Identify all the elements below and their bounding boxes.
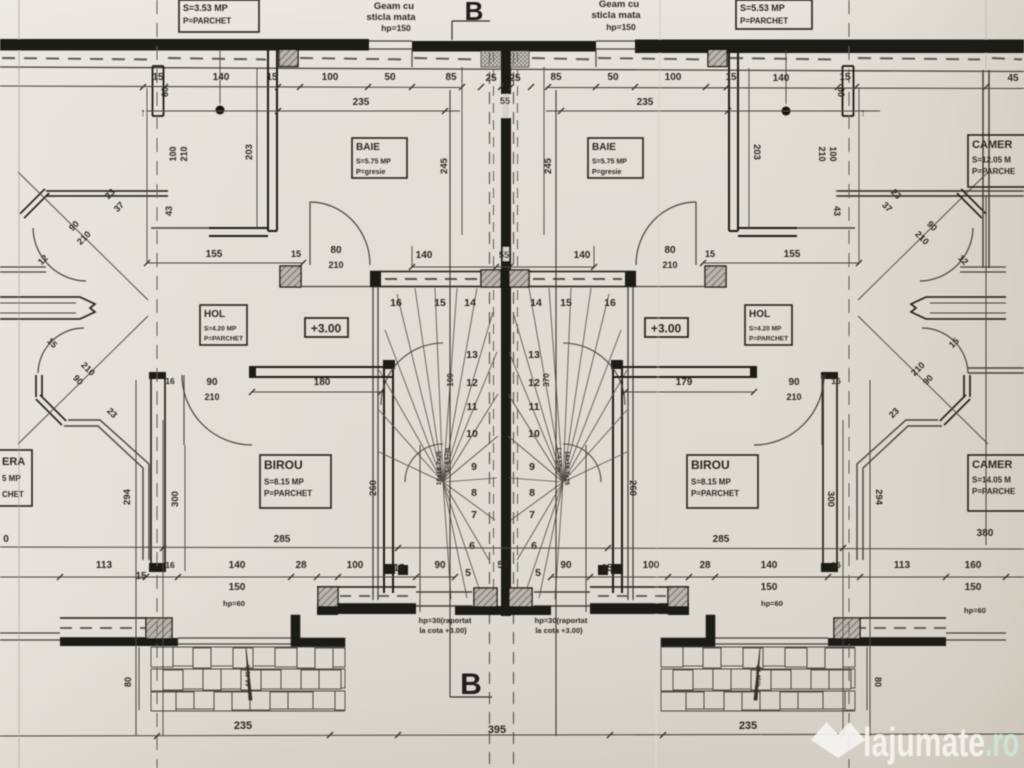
- svg-text:25: 25: [485, 73, 497, 84]
- svg-text:294: 294: [122, 488, 133, 505]
- svg-text:235: 235: [739, 720, 757, 732]
- svg-text:S=14.05 M: S=14.05 M: [972, 476, 1011, 485]
- svg-text:16: 16: [604, 297, 616, 309]
- svg-text:210: 210: [662, 260, 677, 270]
- svg-text:sticla mata: sticla mata: [366, 12, 416, 23]
- BIROU top wall: [322, 376, 394, 378]
- L-step wall: [291, 615, 345, 647]
- BAIE door arc: [310, 202, 370, 265]
- camera bottom top wall right: [968, 367, 1024, 369]
- bay diagonal walls lower: [36, 399, 62, 425]
- svg-text:8: 8: [529, 487, 535, 499]
- svg-text:13: 13: [466, 349, 478, 361]
- hol top edge line to door: [301, 286, 370, 288]
- svg-text:16x18.7x25: 16x18.7x25: [436, 450, 443, 485]
- svg-text:113: 113: [894, 560, 911, 571]
- svg-text:203: 203: [751, 144, 762, 160]
- svg-text:B: B: [460, 668, 482, 701]
- svg-text:180: 180: [314, 377, 331, 388]
- svg-text:10: 10: [528, 428, 540, 440]
- B section top bracket: [452, 20, 490, 22]
- svg-text:15: 15: [560, 297, 572, 309]
- bay diagonal walls upper: [20, 189, 45, 214]
- svg-text:55: 55: [497, 560, 509, 571]
- svg-text:285: 285: [274, 534, 291, 545]
- svg-text:245: 245: [543, 157, 554, 174]
- paper seam center: [656, 0, 660, 768]
- terrace steps brick pattern: [151, 646, 345, 648]
- svg-text:43: 43: [832, 206, 842, 216]
- window dashes: [2, 58, 148, 60]
- svg-text:140: 140: [761, 560, 778, 571]
- svg-text:12: 12: [466, 377, 478, 389]
- dim line y263 (155 row): [147, 262, 303, 264]
- svg-text:100: 100: [665, 72, 682, 83]
- svg-text:395: 395: [488, 724, 506, 736]
- svg-text:100: 100: [446, 373, 455, 387]
- svg-text:140: 140: [229, 560, 246, 571]
- svg-text:P=PARCHET: P=PARCHET: [740, 17, 788, 26]
- CAMERA right bottom box: [968, 455, 1024, 511]
- svg-text:5: 5: [535, 567, 541, 579]
- verticals mid (lot lines): [135, 380, 137, 736]
- watermark logo chevron diamond: [811, 719, 1019, 765]
- BIROU door leaf right: [821, 375, 823, 445]
- svg-text:P=PARCHET: P=PARCHET: [204, 336, 243, 343]
- central party wall: [501, 42, 511, 94]
- svg-text:15: 15: [601, 563, 613, 574]
- svg-text:.ro: .ro: [985, 719, 1019, 765]
- svg-text:Geam cu: Geam cu: [374, 1, 414, 12]
- svg-text:60: 60: [160, 87, 170, 97]
- svg-text:235: 235: [353, 97, 370, 108]
- svg-text:S=4.20 MP: S=4.20 MP: [749, 326, 782, 333]
- svg-text:210: 210: [179, 146, 189, 161]
- BIROU door arc: [182, 375, 252, 445]
- svg-text:BAIE: BAIE: [356, 142, 380, 153]
- svg-text:6: 6: [469, 540, 475, 552]
- svg-text:sticla mata: sticla mata: [591, 10, 641, 21]
- svg-text:113: 113: [96, 560, 113, 571]
- svg-text:S=12.05 M: S=12.05 M: [972, 156, 1011, 165]
- step window band: [317, 586, 416, 588]
- svg-text:8: 8: [471, 487, 477, 499]
- wall under BAIE (y227-236): [209, 235, 268, 237]
- window gap frames in band: [369, 40, 412, 42]
- svg-text:15: 15: [266, 72, 278, 83]
- svg-text:15: 15: [839, 72, 851, 83]
- svg-text:235: 235: [637, 97, 654, 108]
- stair treads left: [379, 452, 443, 482]
- BIROU left wall: [150, 378, 152, 570]
- CAMERA right top box: [968, 135, 1024, 187]
- svg-text:140: 140: [416, 250, 433, 261]
- svg-text:210: 210: [328, 260, 343, 270]
- svg-text:16: 16: [390, 297, 402, 309]
- svg-text:S=5.53 MP: S=5.53 MP: [740, 3, 785, 13]
- window sill strip below band: [0, 67, 1024, 72]
- camera right wall verticals: [982, 70, 984, 268]
- svg-text:150: 150: [229, 582, 246, 593]
- svg-text:11: 11: [528, 401, 539, 413]
- top exterior wall band: [0, 39, 369, 51]
- svg-text:hp=30(raportat: hp=30(raportat: [535, 616, 588, 625]
- svg-text:12: 12: [528, 377, 540, 389]
- paper fold left: [18, 0, 20, 768]
- svg-text:S=8.15 MP: S=8.15 MP: [691, 478, 731, 487]
- svg-text:Geam cu: Geam cu: [599, 0, 639, 10]
- edge double line above prong: [0, 266, 46, 268]
- svg-text:14: 14: [464, 297, 476, 309]
- svg-text:245: 245: [439, 157, 450, 174]
- svg-text:lajumate: lajumate: [863, 719, 985, 765]
- svg-text:160: 160: [965, 560, 982, 571]
- stair bottom band: [416, 591, 472, 593]
- label box S=5.53 top right: [736, 0, 812, 29]
- terrace sliding door: [178, 637, 291, 639]
- svg-text:203: 203: [244, 144, 255, 160]
- stair inner flight edge: [419, 445, 421, 612]
- svg-text:15: 15: [135, 571, 147, 582]
- svg-text:7: 7: [471, 509, 477, 521]
- svg-text:80: 80: [873, 677, 883, 687]
- svg-text:P=PARCHE: P=PARCHE: [972, 487, 1016, 496]
- extension verticals upper: [146, 88, 148, 263]
- frosted glass piers (sticla mata): [481, 51, 501, 67]
- bay diag dimension lines: [18, 172, 148, 300]
- party wall dashed projection lines: [489, 52, 491, 768]
- svg-text:P=PARCHE: P=PARCHE: [972, 167, 1016, 176]
- svg-text:300: 300: [170, 491, 181, 507]
- BAIE boxes: [352, 138, 407, 178]
- svg-text:294: 294: [873, 489, 884, 506]
- svg-text:CHET: CHET: [2, 490, 24, 499]
- svg-text:P=PARCHET: P=PARCHET: [183, 17, 231, 26]
- svg-text:85: 85: [550, 72, 562, 83]
- svg-text:28: 28: [699, 560, 711, 571]
- svg-text:CAMER: CAMER: [972, 139, 1012, 151]
- svg-text:210: 210: [204, 392, 219, 402]
- svg-text:↑: ↑: [860, 107, 866, 119]
- svg-text:P=gresie: P=gresie: [356, 169, 385, 176]
- svg-text:16: 16: [831, 376, 841, 386]
- svg-text:CAMER: CAMER: [972, 459, 1012, 471]
- svg-text:80: 80: [330, 245, 342, 256]
- dim line y392 (180 row): [252, 391, 381, 393]
- svg-text:S=3.53 MP: S=3.53 MP: [183, 3, 228, 13]
- bay door arc lower: [38, 328, 84, 373]
- svg-text:11: 11: [466, 401, 477, 413]
- svg-text:P=PARCHET: P=PARCHET: [749, 336, 788, 343]
- party wall top marker: [502, 61, 510, 69]
- svg-text:S=5.75 MP: S=5.75 MP: [356, 159, 391, 166]
- svg-text:hp=60: hp=60: [964, 606, 986, 615]
- BAIE left wall: [267, 50, 269, 231]
- svg-text:+3.00: +3.00: [311, 322, 342, 336]
- dim line y267 stairs (140/55/140): [412, 266, 594, 268]
- svg-text:13: 13: [528, 349, 540, 361]
- svg-text:179: 179: [676, 377, 693, 388]
- svg-text:BIROU: BIROU: [264, 458, 303, 472]
- svg-text:16x18.7x25: 16x18.7x25: [563, 451, 570, 486]
- svg-text:28: 28: [295, 560, 307, 571]
- wall y191-196 left: [46, 195, 168, 197]
- svg-text:BIROU: BIROU: [691, 458, 730, 472]
- svg-text:100: 100: [322, 72, 339, 83]
- bay to birou zigzag: [64, 426, 143, 560]
- svg-text:100: 100: [168, 146, 178, 161]
- svg-text:14: 14: [530, 297, 542, 309]
- svg-text:6: 6: [531, 540, 537, 552]
- hatched wall piers: [279, 50, 298, 67]
- svg-text:45: 45: [1007, 73, 1019, 84]
- BIROU boxes: [260, 455, 331, 508]
- svg-text:15: 15: [393, 563, 405, 574]
- svg-text:P=PARCHET: P=PARCHET: [691, 489, 739, 498]
- svg-text:HOL: HOL: [204, 309, 225, 320]
- svg-text:5 MP: 5 MP: [2, 474, 21, 483]
- long line y548 (285/380 row): [0, 547, 1024, 549]
- svg-text:210: 210: [817, 146, 827, 161]
- BIROU door leaf left: [183, 375, 185, 445]
- svg-text:60: 60: [836, 87, 846, 97]
- svg-text:90: 90: [788, 377, 800, 388]
- svg-text:285: 285: [713, 534, 730, 545]
- svg-text:300: 300: [825, 491, 836, 507]
- svg-text:↑: ↑: [140, 107, 146, 119]
- svg-text:15: 15: [152, 72, 164, 83]
- svg-text:9: 9: [471, 461, 477, 473]
- svg-text:155: 155: [784, 249, 801, 260]
- CAMERA left cut box: [0, 450, 32, 506]
- 15 cap under stair wall: [398, 565, 408, 575]
- svg-text:235: 235: [234, 720, 252, 732]
- svg-text:140: 140: [574, 250, 591, 261]
- bottom dim line: [0, 734, 1024, 736]
- svg-text:HOL: HOL: [749, 309, 770, 320]
- terrace 80 dim: [138, 647, 140, 710]
- svg-text:9: 9: [529, 461, 535, 473]
- svg-text:150: 150: [965, 582, 982, 593]
- svg-text:5: 5: [465, 567, 471, 579]
- svg-text:0: 0: [3, 534, 9, 545]
- svg-text:80: 80: [123, 677, 133, 687]
- svg-text:90: 90: [560, 560, 572, 571]
- bay door arc upper: [33, 228, 86, 281]
- HOL hatched pier: [280, 266, 301, 287]
- svg-text:25: 25: [509, 73, 521, 84]
- svg-text:hp=60: hp=60: [761, 599, 783, 608]
- svg-text:16: 16: [165, 560, 175, 570]
- svg-text:260: 260: [627, 480, 638, 496]
- column dot: [216, 106, 225, 115]
- stair walk-line arcs: [381, 343, 443, 405]
- svg-text:50: 50: [384, 72, 396, 83]
- svg-text:15: 15: [705, 249, 715, 259]
- svg-text:380: 380: [977, 528, 994, 539]
- svg-text:85: 85: [445, 72, 457, 83]
- B section vertical bottom: [449, 90, 451, 697]
- svg-text:15: 15: [434, 297, 446, 309]
- svg-text:16: 16: [831, 560, 841, 570]
- dim row 1 line y87: [0, 86, 460, 88]
- svg-text:370: 370: [542, 373, 551, 387]
- svg-text:la cota +3.00): la cota +3.00): [419, 626, 467, 635]
- svg-text:15: 15: [291, 249, 301, 259]
- bottom-left window band: [0, 632, 60, 634]
- svg-text:la cota +3.00): la cota +3.00): [535, 626, 583, 635]
- stair shaft outer wall left: [372, 287, 374, 600]
- svg-text:S=8.15 MP: S=8.15 MP: [264, 478, 304, 487]
- svg-text:140: 140: [213, 72, 230, 83]
- bay vertical stub lower: [35, 375, 37, 397]
- svg-text:210: 210: [786, 392, 801, 402]
- svg-text:100: 100: [347, 560, 364, 571]
- svg-text:hp=150: hp=150: [606, 22, 636, 32]
- svg-text:15: 15: [725, 72, 737, 83]
- +3.00 boxes: [305, 318, 348, 337]
- stair top wall with window: [370, 271, 636, 273]
- svg-text:90: 90: [434, 560, 446, 571]
- svg-text:100: 100: [643, 560, 660, 571]
- svg-text:S=4.20 MP: S=4.20 MP: [204, 326, 237, 333]
- svg-text:155: 155: [206, 249, 223, 260]
- svg-text:55: 55: [499, 250, 509, 260]
- svg-text:55: 55: [500, 96, 510, 106]
- dim row 2 line y111: [147, 110, 460, 112]
- svg-text:260: 260: [368, 480, 379, 496]
- svg-text:80: 80: [664, 245, 676, 256]
- paper fold right: [985, 0, 987, 70]
- label box S=3.53 top left: [179, 0, 259, 32]
- BIROU right wall: [822, 378, 824, 570]
- svg-text:BAIE: BAIE: [592, 142, 616, 153]
- svg-text:ERA: ERA: [2, 456, 25, 468]
- svg-text:hp=30(raportat: hp=30(raportat: [419, 616, 472, 625]
- svg-text:140: 140: [773, 73, 790, 84]
- stair/birou wall: [383, 368, 385, 593]
- bottom extension verticals: [135, 646, 137, 736]
- svg-text:hp=150: hp=150: [381, 23, 411, 33]
- svg-text:S=5.75 MP: S=5.75 MP: [592, 159, 627, 166]
- svg-text:150: 150: [761, 582, 778, 593]
- svg-text:10: 10: [466, 428, 478, 440]
- wall stub with 15 label: [152, 66, 154, 116]
- svg-text:7: 7: [529, 509, 535, 521]
- bay prong wall: [0, 297, 95, 319]
- long line y577: [0, 576, 455, 578]
- svg-text:100: 100: [828, 146, 838, 161]
- svg-text:hp=60: hp=60: [223, 599, 245, 608]
- svg-text:P=gresie: P=gresie: [592, 169, 621, 176]
- svg-text:90: 90: [206, 377, 218, 388]
- svg-text:16: 16: [165, 376, 175, 386]
- svg-text:43: 43: [164, 206, 174, 216]
- svg-text:+3.00: +3.00: [651, 322, 682, 336]
- svg-text:P=PARCHET: P=PARCHET: [264, 489, 312, 498]
- svg-text:50: 50: [607, 72, 619, 83]
- svg-text:B: B: [465, 0, 484, 26]
- HOL boxes: [200, 305, 247, 345]
